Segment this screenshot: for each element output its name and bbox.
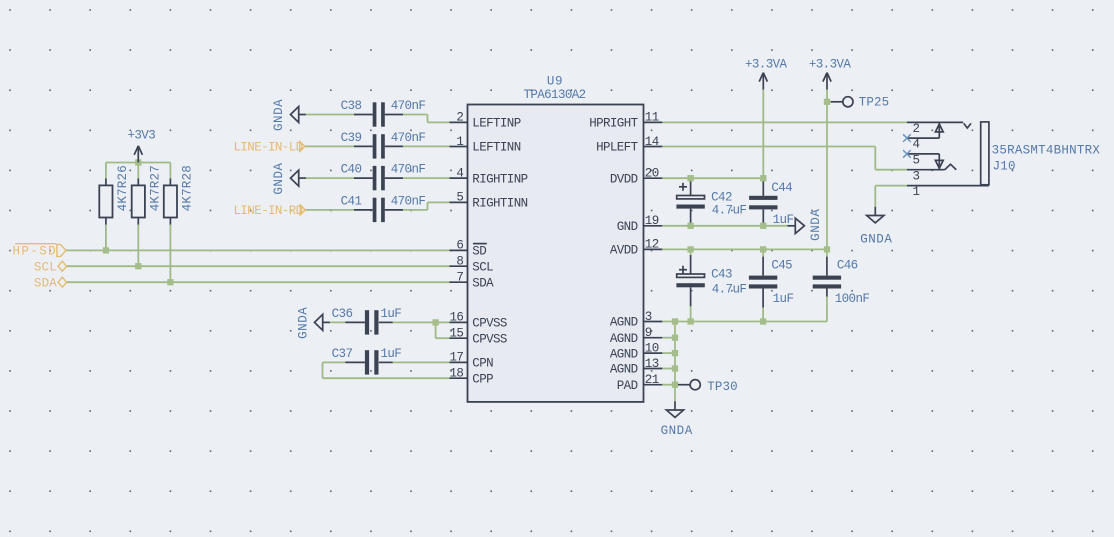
svg-text:CPP: CPP: [472, 372, 493, 386]
svg-text:GNDA: GNDA: [860, 233, 892, 247]
svg-text:100nF: 100nF: [835, 292, 870, 306]
svg-text:C42: C42: [711, 191, 732, 205]
svg-text:AGND: AGND: [610, 332, 638, 346]
svg-text:CPN: CPN: [472, 357, 493, 371]
svg-text:4K7R28: 4K7R28: [181, 165, 195, 211]
svg-text:GNDA: GNDA: [272, 162, 286, 194]
svg-text:10: 10: [645, 341, 659, 355]
svg-text:C43: C43: [711, 268, 732, 282]
svg-text:9: 9: [645, 326, 652, 340]
svg-text:470nF: 470nF: [391, 131, 426, 145]
svg-text:HPRIGHT: HPRIGHT: [589, 117, 638, 131]
svg-text:4K7R26: 4K7R26: [116, 165, 130, 211]
svg-text:C44: C44: [771, 181, 792, 195]
svg-text:RIGHTINP: RIGHTINP: [472, 172, 527, 186]
svg-text:TPA6130A2: TPA6130A2: [523, 88, 585, 102]
svg-text:5: 5: [456, 191, 463, 205]
svg-text:470nF: 470nF: [391, 163, 426, 177]
svg-text:LINE-IN-RD: LINE-IN-RD: [234, 204, 303, 218]
svg-text:1uF: 1uF: [773, 213, 794, 227]
svg-text:DVDD: DVDD: [610, 172, 638, 186]
svg-text:19: 19: [645, 214, 659, 228]
svg-text:17: 17: [449, 351, 463, 365]
svg-text:470nF: 470nF: [391, 194, 426, 208]
svg-text:1uF: 1uF: [773, 292, 794, 306]
svg-text:PAD: PAD: [617, 379, 638, 393]
svg-text:18: 18: [449, 367, 463, 381]
svg-text:GNDA: GNDA: [661, 424, 693, 438]
svg-text:C38: C38: [341, 99, 362, 113]
svg-text:12: 12: [645, 238, 659, 252]
svg-text:AGND: AGND: [610, 363, 638, 377]
svg-text:3: 3: [645, 310, 652, 324]
svg-text:RIGHTINN: RIGHTINN: [472, 197, 527, 211]
svg-text:2: 2: [913, 122, 920, 136]
svg-text:U9: U9: [547, 75, 563, 89]
svg-text:SCL: SCL: [34, 260, 57, 274]
svg-text:1: 1: [456, 135, 463, 149]
svg-text:SD: SD: [472, 245, 486, 259]
svg-text:LEFTINP: LEFTINP: [472, 117, 520, 131]
svg-text:7: 7: [456, 271, 463, 285]
svg-text:4.7uF: 4.7uF: [712, 204, 747, 218]
svg-text:HP-SD: HP-SD: [12, 245, 57, 259]
svg-text:LINE-IN-LD: LINE-IN-LD: [234, 141, 303, 155]
svg-text:3: 3: [913, 169, 920, 183]
svg-text:1uF: 1uF: [380, 347, 401, 361]
svg-text:5: 5: [913, 154, 920, 168]
svg-text:13: 13: [645, 357, 659, 371]
svg-text:4.7uF: 4.7uF: [712, 282, 747, 296]
svg-text:GND: GND: [617, 220, 638, 234]
svg-text:+3.3VA: +3.3VA: [809, 58, 852, 72]
svg-text:15: 15: [449, 327, 463, 341]
svg-text:2: 2: [456, 111, 463, 125]
svg-text:SDA: SDA: [472, 276, 494, 290]
svg-text:+3V3: +3V3: [127, 129, 155, 143]
svg-text:CPVSS: CPVSS: [472, 317, 507, 331]
svg-text:TP30: TP30: [707, 380, 737, 394]
svg-text:+3.3VA: +3.3VA: [745, 58, 788, 72]
svg-text:SCL: SCL: [472, 260, 493, 274]
svg-text:35RASMT4BHNTRX: 35RASMT4BHNTRX: [992, 144, 1101, 158]
svg-text:AGND: AGND: [610, 316, 638, 330]
svg-text:14: 14: [645, 135, 659, 149]
svg-text:1uF: 1uF: [380, 307, 401, 321]
svg-text:C40: C40: [341, 163, 362, 177]
svg-text:20: 20: [645, 167, 659, 181]
svg-text:C36: C36: [332, 307, 353, 321]
svg-text:C41: C41: [341, 194, 362, 208]
svg-text:AVDD: AVDD: [610, 244, 638, 258]
svg-text:4: 4: [913, 138, 920, 152]
svg-text:C37: C37: [332, 347, 353, 361]
svg-text:16: 16: [449, 311, 463, 325]
svg-text:GNDA: GNDA: [272, 99, 286, 131]
svg-text:C46: C46: [837, 259, 858, 273]
svg-text:HPLEFT: HPLEFT: [596, 141, 639, 155]
svg-text:GNDA: GNDA: [296, 307, 310, 339]
svg-text:AGND: AGND: [610, 347, 638, 361]
svg-text:SDA: SDA: [34, 276, 57, 290]
svg-text:J10: J10: [993, 159, 1016, 173]
svg-text:8: 8: [456, 255, 463, 269]
svg-text:GNDA: GNDA: [809, 209, 823, 241]
svg-text:C45: C45: [771, 259, 792, 273]
svg-text:TP25: TP25: [859, 96, 889, 110]
svg-text:LEFTINN: LEFTINN: [472, 141, 520, 155]
svg-text:470nF: 470nF: [391, 99, 426, 113]
svg-text:C39: C39: [341, 131, 362, 145]
svg-text:CPVSS: CPVSS: [472, 332, 507, 346]
svg-text:11: 11: [645, 111, 659, 125]
svg-text:4: 4: [456, 166, 463, 180]
svg-text:21: 21: [645, 373, 659, 387]
svg-text:4K7R27: 4K7R27: [149, 165, 163, 211]
svg-text:6: 6: [456, 239, 463, 253]
svg-text:1: 1: [913, 185, 920, 199]
